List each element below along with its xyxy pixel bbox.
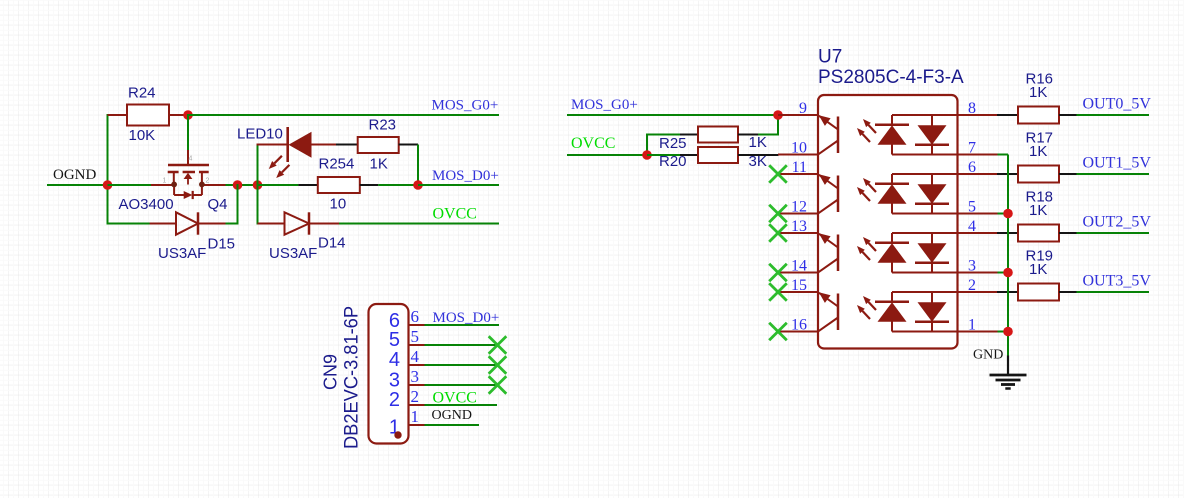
svg-text:11: 11	[792, 159, 807, 176]
svg-text:CN9: CN9	[321, 354, 341, 390]
wire D15 branch left riser	[107, 185, 109, 225]
svg-text:MOS_D0+: MOS_D0+	[432, 168, 499, 184]
svg-text:R20: R20	[659, 153, 687, 170]
wire R24-left riser	[107, 114, 109, 186]
svg-text:PS2805C-4-F3-A: PS2805C-4-F3-A	[818, 67, 964, 88]
wire CN9 pin2	[425, 404, 498, 406]
svg-text:15: 15	[791, 277, 807, 294]
pin 8 U7	[958, 114, 998, 116]
svg-text:D15: D15	[208, 236, 236, 253]
pin 5 U7	[958, 213, 998, 215]
svg-text:6: 6	[411, 307, 420, 326]
wire OUT2_5V	[1077, 232, 1150, 234]
pin 2 U7	[958, 291, 998, 293]
resistor R254	[318, 177, 360, 193]
pin 5 CN9 stub	[409, 344, 425, 346]
svg-text:3: 3	[968, 258, 976, 275]
svg-text:R24: R24	[128, 85, 156, 102]
svg-text:GND: GND	[973, 348, 1003, 363]
junction node R23-R254	[413, 180, 423, 190]
light arrows ch4	[868, 302, 876, 310]
svg-text:R23: R23	[369, 117, 397, 134]
wire OVCC riser	[646, 134, 648, 156]
ground	[1007, 356, 1009, 376]
diode pair U7 ch4	[892, 291, 958, 293]
svg-text:R25: R25	[659, 135, 687, 152]
wire Q4-source	[108, 184, 152, 186]
pin 11 U7	[778, 173, 818, 175]
svg-text:1: 1	[411, 407, 420, 426]
connector CN9 body	[369, 304, 409, 444]
svg-text:OGND: OGND	[53, 167, 96, 183]
diode pair U7 ch1	[892, 114, 958, 116]
svg-text:OUT1_5V: OUT1_5V	[1083, 155, 1152, 172]
wire R25 to pin9	[758, 134, 778, 136]
pin 6 U7	[958, 173, 998, 175]
svg-text:13: 13	[791, 218, 807, 235]
svg-text:16: 16	[791, 317, 807, 334]
svg-text:1: 1	[968, 317, 976, 334]
svg-text:3: 3	[411, 367, 420, 386]
wire MOS_G0+ right	[567, 114, 779, 116]
light arrows ch1	[868, 125, 876, 133]
light arrows ch3	[868, 243, 876, 251]
wire CN9 pin6	[425, 324, 500, 326]
junction node drain-D15	[233, 180, 243, 190]
svg-text:8: 8	[968, 100, 976, 117]
wire CN9 pin1	[425, 424, 480, 426]
diode pair U7 ch2	[892, 173, 958, 175]
svg-text:4: 4	[968, 218, 976, 235]
junction node pin1	[1003, 327, 1013, 337]
pin 14 U7	[778, 272, 818, 274]
svg-text:2: 2	[968, 277, 976, 294]
svg-text:5: 5	[411, 327, 420, 346]
pin 15 U7	[778, 291, 818, 293]
pin 12 U7	[778, 213, 818, 215]
op-amp U7 body	[818, 95, 958, 349]
svg-text:OVCC: OVCC	[433, 390, 477, 407]
resistor R19	[997, 291, 1018, 293]
svg-text:U7: U7	[818, 47, 842, 68]
wire R23 right riser	[417, 145, 419, 187]
pin 13 U7	[778, 232, 818, 234]
svg-text:6: 6	[968, 159, 976, 176]
svg-text:MOS_G0+: MOS_G0+	[432, 98, 499, 114]
pin 3 CN9 stub	[409, 384, 425, 386]
wire OVCC left	[339, 223, 499, 225]
svg-text:1K: 1K	[370, 156, 388, 173]
svg-text:2: 2	[411, 387, 420, 406]
led LED10	[257, 144, 289, 146]
svg-text:4: 4	[389, 349, 400, 371]
wire OUT3_5V	[1077, 291, 1150, 293]
pin 16 U7	[778, 331, 818, 333]
pin 10 U7	[778, 154, 818, 156]
pin 4 U7	[958, 232, 998, 234]
svg-text:D14: D14	[318, 235, 346, 252]
no-connect X pin12	[769, 205, 787, 223]
svg-text:R254: R254	[319, 156, 355, 173]
pin 6 CN9 stub	[409, 324, 425, 326]
svg-text:OUT0_5V: OUT0_5V	[1083, 96, 1152, 113]
svg-text:10K: 10K	[129, 127, 156, 144]
diode pair U7 ch3	[892, 232, 958, 234]
wire CN9 pin5	[425, 344, 498, 346]
resistor R23	[336, 144, 358, 146]
svg-text:1K: 1K	[749, 134, 767, 151]
transistor U7 ch3	[819, 234, 838, 248]
svg-text:1K: 1K	[1029, 261, 1047, 278]
svg-text:14: 14	[791, 258, 807, 275]
wire OUT0_5V	[1077, 114, 1150, 116]
transistor Q4	[187, 150, 189, 165]
svg-text:MOS_G0+: MOS_G0+	[571, 97, 638, 113]
svg-text:5: 5	[968, 199, 976, 216]
svg-text:2: 2	[206, 178, 210, 185]
wire CN9 pin4	[425, 364, 498, 366]
svg-text:OGND: OGND	[432, 408, 472, 423]
wire pin5 stub	[998, 213, 1009, 215]
svg-text:US3AF: US3AF	[269, 245, 317, 262]
junction node pin9	[773, 110, 783, 120]
no-connect X pin4	[489, 356, 507, 374]
svg-text:OUT3_5V: OUT3_5V	[1083, 273, 1152, 290]
pin 1 marker CN9	[394, 431, 401, 438]
transistor U7 ch1	[819, 116, 838, 130]
wire OVCC to R20	[647, 154, 681, 156]
wire MOS_D0+	[418, 184, 499, 186]
svg-text:1K: 1K	[1029, 84, 1047, 101]
svg-text:9: 9	[799, 100, 807, 117]
no-connect X pin14	[769, 264, 787, 282]
wire Q4-drain to junctions	[226, 184, 259, 186]
wire MOS_G0+ left	[188, 114, 499, 116]
no-connect X pin13	[769, 224, 787, 242]
svg-text:DB2EVC-3.81-6P: DB2EVC-3.81-6P	[342, 306, 363, 449]
wire D15 right riser	[226, 223, 238, 225]
svg-text:1K: 1K	[1029, 143, 1047, 160]
wire OUT1_5V	[1077, 173, 1150, 175]
transistor U7 ch2	[819, 175, 838, 189]
svg-text:4: 4	[411, 347, 420, 366]
svg-text:5: 5	[389, 329, 400, 351]
no-connect X pin3	[489, 376, 507, 394]
wire pin1 stub	[998, 331, 1009, 333]
pin 3 U7	[958, 272, 998, 274]
diode D15	[150, 223, 176, 225]
pin 9 U7	[778, 114, 818, 116]
pin 4 CN9 stub	[409, 364, 425, 366]
resistor R16	[997, 114, 1018, 116]
svg-text:OVCC: OVCC	[433, 206, 477, 223]
pin 2 CN9 stub	[409, 404, 425, 406]
svg-text:1: 1	[163, 178, 167, 185]
pin 1 U7	[958, 331, 998, 333]
svg-text:Q4: Q4	[208, 196, 228, 213]
no-connect X pin11	[769, 165, 787, 183]
no-connect X pin5	[489, 336, 507, 354]
wire pin3 stub	[998, 272, 1009, 274]
svg-text:1K: 1K	[1029, 202, 1047, 219]
svg-text:3K: 3K	[749, 153, 767, 170]
svg-text:OVCC: OVCC	[571, 135, 615, 152]
light arrows ch2	[868, 184, 876, 192]
svg-text:2: 2	[389, 389, 400, 411]
wire Q4 gate	[187, 114, 189, 150]
svg-text:US3AF: US3AF	[158, 245, 206, 262]
resistor R24	[108, 114, 128, 116]
junction node OGND-R24	[103, 180, 113, 190]
svg-text:10: 10	[791, 140, 807, 157]
wire R254 to MOS_D0+	[378, 184, 418, 186]
svg-text:OUT2_5V: OUT2_5V	[1083, 214, 1152, 231]
junction node OVCC split	[642, 150, 652, 160]
svg-text:7: 7	[968, 140, 976, 157]
wire LED-D14 riser	[257, 144, 259, 225]
transistor U7 ch4	[819, 293, 838, 307]
resistor R18	[997, 232, 1018, 234]
junction node pin5	[1003, 209, 1013, 219]
no-connect X pin15	[769, 283, 787, 301]
svg-text:12: 12	[791, 199, 807, 216]
diode D14	[258, 223, 285, 225]
junction node R24-gate	[183, 110, 193, 120]
wire GND bus	[1007, 155, 1009, 356]
wire pin7 to bus	[998, 154, 1009, 156]
resistor R20	[680, 154, 698, 156]
pin 7 U7	[958, 154, 998, 156]
svg-text:10: 10	[330, 196, 347, 213]
wire main row to R254	[258, 184, 299, 186]
pin 1 CN9 stub	[409, 424, 425, 426]
wire CN9 pin3	[425, 384, 498, 386]
junction node drain-LED	[253, 180, 263, 190]
wire OVCC right	[567, 154, 647, 156]
svg-text:MOS_D0+: MOS_D0+	[433, 310, 500, 326]
resistor R25	[680, 134, 698, 136]
resistor R17	[997, 173, 1018, 175]
svg-text:4: 4	[189, 156, 193, 163]
junction node pin3	[1003, 268, 1013, 278]
no-connect X pin16	[769, 323, 787, 341]
wire OGND	[47, 184, 109, 186]
svg-text:LED10: LED10	[237, 126, 283, 143]
svg-text:AO3400: AO3400	[119, 196, 174, 213]
